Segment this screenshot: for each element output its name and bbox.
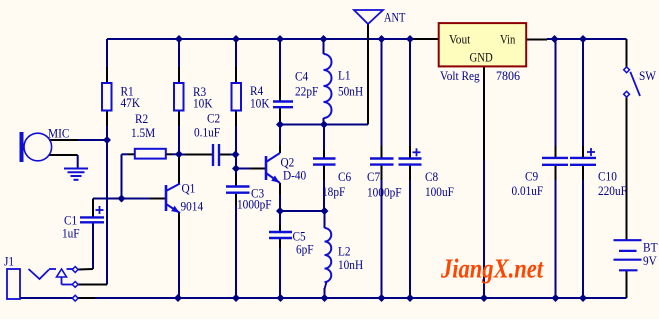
svg-text:220uF: 220uF <box>598 183 627 198</box>
svg-text:ANT: ANT <box>384 10 405 25</box>
svg-text:J1: J1 <box>4 254 14 269</box>
svg-text:SW: SW <box>639 68 657 83</box>
svg-text:22pF: 22pF <box>295 84 318 99</box>
svg-text:47K: 47K <box>121 95 141 110</box>
svg-text:GND: GND <box>470 51 493 65</box>
svg-text:1000pF: 1000pF <box>367 185 402 200</box>
svg-text:C10: C10 <box>598 169 617 184</box>
svg-text:JiangX.net: JiangX.net <box>440 254 544 284</box>
svg-text:0.01uF: 0.01uF <box>512 183 544 198</box>
svg-text:R2: R2 <box>135 111 148 126</box>
svg-text:9014: 9014 <box>181 199 204 214</box>
svg-text:50nH: 50nH <box>338 84 363 99</box>
svg-text:10K: 10K <box>250 96 270 111</box>
svg-text:0.1uF: 0.1uF <box>194 125 220 140</box>
svg-text:Q1: Q1 <box>182 181 196 196</box>
svg-text:1uF: 1uF <box>62 226 80 241</box>
svg-text:9V: 9V <box>643 253 657 268</box>
svg-text:D-40: D-40 <box>283 168 306 183</box>
svg-text:Vout: Vout <box>449 33 471 47</box>
svg-text:10K: 10K <box>193 96 213 111</box>
svg-text:C8: C8 <box>425 169 438 184</box>
svg-text:6pF: 6pF <box>296 242 314 257</box>
svg-text:C6: C6 <box>338 169 352 184</box>
svg-text:C4: C4 <box>295 69 309 84</box>
svg-text:18pF: 18pF <box>322 184 345 199</box>
svg-text:C9: C9 <box>525 169 538 184</box>
svg-text:L1: L1 <box>338 68 351 83</box>
svg-text:C2: C2 <box>207 111 220 126</box>
svg-text:Vin: Vin <box>500 33 516 47</box>
svg-text:7806: 7806 <box>496 68 520 83</box>
svg-text:C7: C7 <box>367 169 381 184</box>
svg-text:1000pF: 1000pF <box>237 197 272 212</box>
svg-text:Volt Reg: Volt Reg <box>440 68 480 83</box>
svg-text:MIC: MIC <box>48 126 69 141</box>
svg-text:10nH: 10nH <box>338 257 363 272</box>
svg-text:1.5M: 1.5M <box>131 125 156 140</box>
svg-text:100uF: 100uF <box>425 184 454 199</box>
